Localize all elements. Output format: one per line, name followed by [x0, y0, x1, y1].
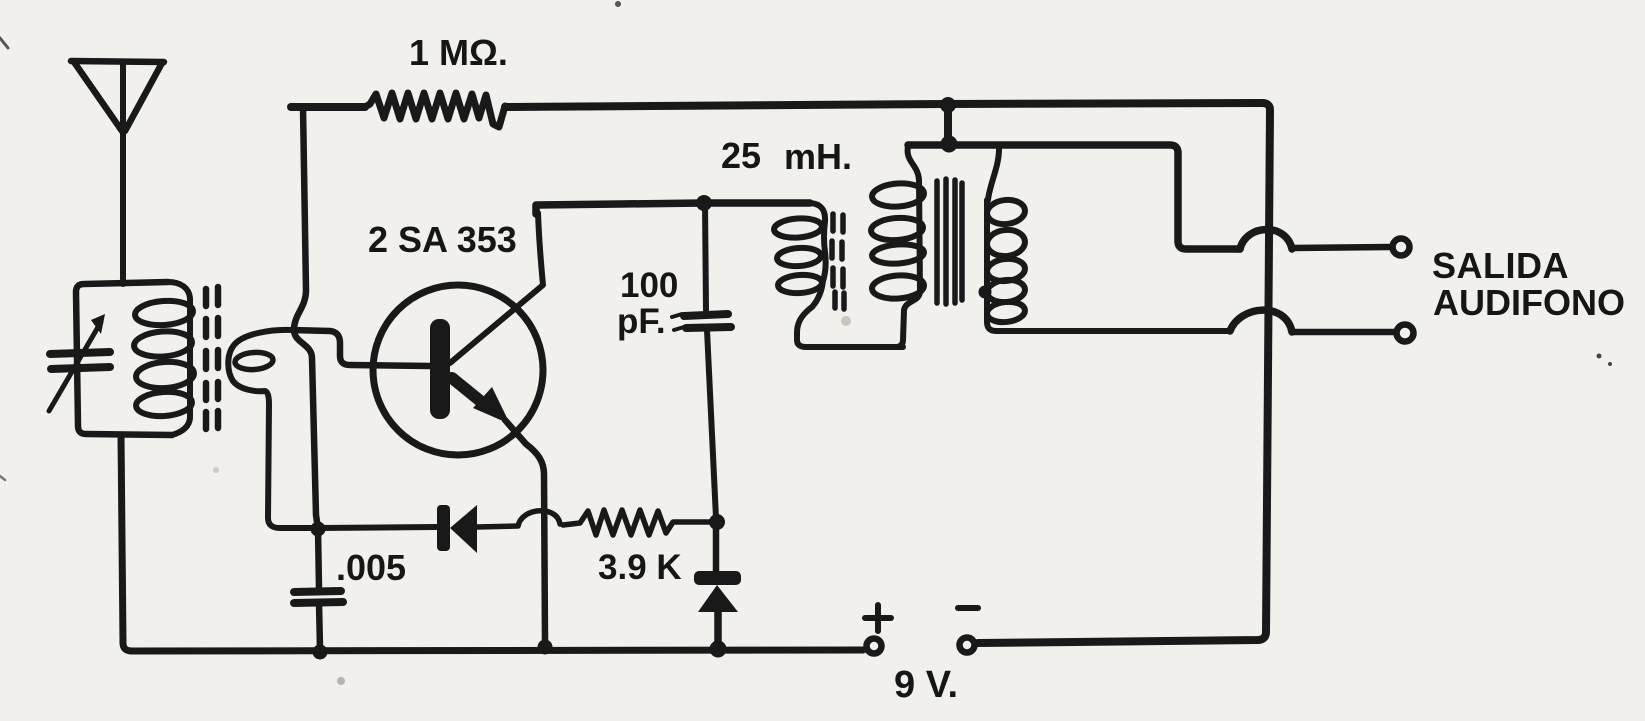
svg-text:AUDIFONO: AUDIFONO: [1433, 282, 1625, 323]
node transformer top wire: [941, 136, 958, 153]
svg-text:1 MΩ.: 1 MΩ.: [409, 32, 508, 73]
bottom rail wire: [121, 435, 863, 651]
svg-text:.005: .005: [336, 547, 406, 588]
svg-text:pF.: pF.: [617, 302, 666, 341]
battery positive terminal: [867, 639, 882, 654]
wire hop over right rail (top output): [1240, 229, 1292, 249]
transformer T1 primary coil: [870, 146, 924, 347]
wire rail down to transformer top: [944, 105, 952, 145]
resistor R1 1 Mohm: [365, 93, 505, 127]
inductor L3 25 mH: [773, 203, 903, 347]
wire L2 bottom down to bias junction: [228, 330, 315, 528]
wire to bottom output terminal: [1292, 329, 1394, 336]
transistor Q1 base bar: [430, 319, 450, 419]
terminal top output: [1393, 239, 1410, 256]
tank rectangle (tuned circuit frame): [76, 282, 172, 435]
transistor Q1 collector: [450, 213, 543, 363]
transistor Q1 emitter: [452, 378, 484, 404]
node emitter on rail: [538, 640, 553, 655]
core dashes between L1 and L2: [206, 287, 218, 429]
node collector stub / 100pF: [696, 195, 712, 211]
node bias junction: [311, 522, 326, 537]
wire L2 top to transistor base: [292, 330, 430, 366]
wire from top rail down to bias junction (with S-wiggle crossing): [294, 107, 318, 529]
node D2 on rail: [710, 641, 727, 658]
svg-text:9 V.: 9 V.: [894, 664, 958, 706]
collector stub wire to 25mH: [536, 203, 810, 214]
svg-text:mH.: mH.: [784, 136, 852, 177]
wire D1 to hop over emitter: [477, 511, 560, 527]
top rail wire (left part): [291, 103, 365, 111]
transistor Q1 2SA353 circle: [373, 285, 543, 455]
node .005 on rail: [313, 645, 328, 660]
wire to top output terminal: [1292, 247, 1390, 248]
diode D1: [318, 527, 436, 528]
coil L1 (tank coil): [133, 282, 195, 435]
wire 100pF branch lower: [707, 330, 716, 518]
top rail wire (right part): [505, 103, 1270, 643]
node top rail / transformer feed: [940, 97, 956, 113]
svg-text:25: 25: [721, 135, 761, 176]
node on secondary: [979, 286, 992, 299]
coil L2 (tickler / secondary of antenna coil): [234, 351, 273, 371]
transformer T1 secondary coil: [986, 145, 1230, 331]
node 100pF / R2 / D2 junction: [709, 514, 725, 530]
svg-text:100: 100: [620, 266, 678, 305]
capacitor C2 100 pF: [672, 314, 731, 330]
paper specks: [841, 316, 851, 326]
capacitor C3 .005: [318, 529, 319, 588]
wire 100pF branch upper: [705, 203, 706, 310]
transformer T1 core: [937, 179, 962, 304]
svg-text:3.9 K: 3.9 K: [598, 548, 682, 587]
variable capacitor C1: [49, 322, 110, 411]
antenna: [71, 61, 164, 284]
svg-text:2 SA 353: 2 SA 353: [368, 219, 517, 260]
core dashes between 25mH and transformer: [832, 214, 844, 309]
resistor R2 3.9K: [563, 510, 717, 535]
wire transformer top: [908, 145, 1240, 249]
wire hop over right rail (bottom output): [1230, 310, 1292, 332]
diode D2: [713, 522, 720, 572]
terminal bottom output: [1397, 325, 1414, 342]
battery negative terminal: [960, 638, 975, 653]
svg-text:SALIDA: SALIDA: [1432, 245, 1569, 286]
